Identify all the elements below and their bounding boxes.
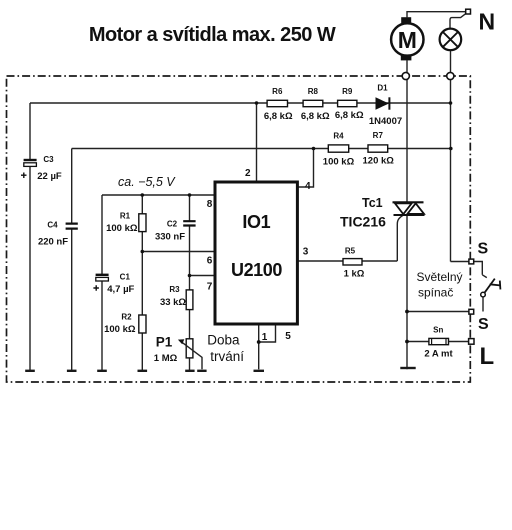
svg-text:220 nF: 220 nF <box>38 237 68 248</box>
svg-text:100 kΩ: 100 kΩ <box>323 157 355 168</box>
svg-text:8: 8 <box>207 199 213 210</box>
svg-text:R2: R2 <box>121 313 132 322</box>
svg-text:L: L <box>480 343 495 370</box>
svg-text:N: N <box>479 9 496 35</box>
svg-text:1N4007: 1N4007 <box>369 116 402 127</box>
svg-text:4,7 µF: 4,7 µF <box>107 284 134 295</box>
svg-text:U2100: U2100 <box>231 260 282 280</box>
svg-text:P1: P1 <box>156 335 173 350</box>
svg-text:Světelný: Světelný <box>417 270 463 284</box>
svg-text:4: 4 <box>305 181 311 192</box>
svg-text:100 kΩ: 100 kΩ <box>104 324 136 335</box>
svg-text:6,8 kΩ: 6,8 kΩ <box>264 111 293 122</box>
svg-text:2 A mt: 2 A mt <box>424 349 453 360</box>
svg-text:2: 2 <box>245 168 251 179</box>
svg-text:1 MΩ: 1 MΩ <box>154 353 178 364</box>
svg-text:D1: D1 <box>377 84 388 93</box>
svg-text:R9: R9 <box>342 87 353 96</box>
svg-text:Doba: Doba <box>207 333 240 348</box>
svg-text:6,8 kΩ: 6,8 kΩ <box>301 111 330 122</box>
svg-text:R5: R5 <box>345 247 356 256</box>
svg-text:ca. −5,5 V: ca. −5,5 V <box>118 175 176 189</box>
svg-text:6,8 kΩ: 6,8 kΩ <box>335 110 364 121</box>
svg-text:C3: C3 <box>43 155 54 164</box>
svg-text:22 µF: 22 µF <box>37 171 62 182</box>
svg-text:trvání: trvání <box>210 349 244 364</box>
svg-text:330 nF: 330 nF <box>155 232 185 243</box>
svg-text:R6: R6 <box>272 87 283 96</box>
svg-text:R3: R3 <box>169 285 180 294</box>
svg-text:5: 5 <box>285 331 291 342</box>
svg-text:IO1: IO1 <box>242 212 270 232</box>
svg-text:Sn: Sn <box>433 326 443 335</box>
svg-text:TIC216: TIC216 <box>340 214 386 230</box>
svg-text:Motor a svítidla max. 250 W: Motor a svítidla max. 250 W <box>89 24 336 46</box>
svg-text:6: 6 <box>207 256 213 267</box>
svg-text:120 kΩ: 120 kΩ <box>363 156 395 167</box>
svg-text:C4: C4 <box>47 221 58 230</box>
svg-text:100 kΩ: 100 kΩ <box>106 223 138 234</box>
svg-text:spínač: spínač <box>418 286 453 300</box>
svg-text:33 kΩ: 33 kΩ <box>160 297 186 308</box>
svg-text:1 kΩ: 1 kΩ <box>344 269 365 280</box>
svg-text:S: S <box>478 316 489 333</box>
svg-text:3: 3 <box>303 247 309 258</box>
svg-text:R7: R7 <box>373 131 384 140</box>
svg-text:7: 7 <box>207 282 213 293</box>
svg-text:S: S <box>478 241 489 258</box>
svg-text:C1: C1 <box>120 273 131 282</box>
svg-text:M: M <box>398 27 417 53</box>
svg-text:R8: R8 <box>308 87 319 96</box>
svg-text:R1: R1 <box>120 212 131 221</box>
svg-text:Tc1: Tc1 <box>362 196 383 210</box>
svg-text:C2: C2 <box>167 220 178 229</box>
svg-text:1: 1 <box>262 332 268 343</box>
svg-text:R4: R4 <box>333 132 344 141</box>
